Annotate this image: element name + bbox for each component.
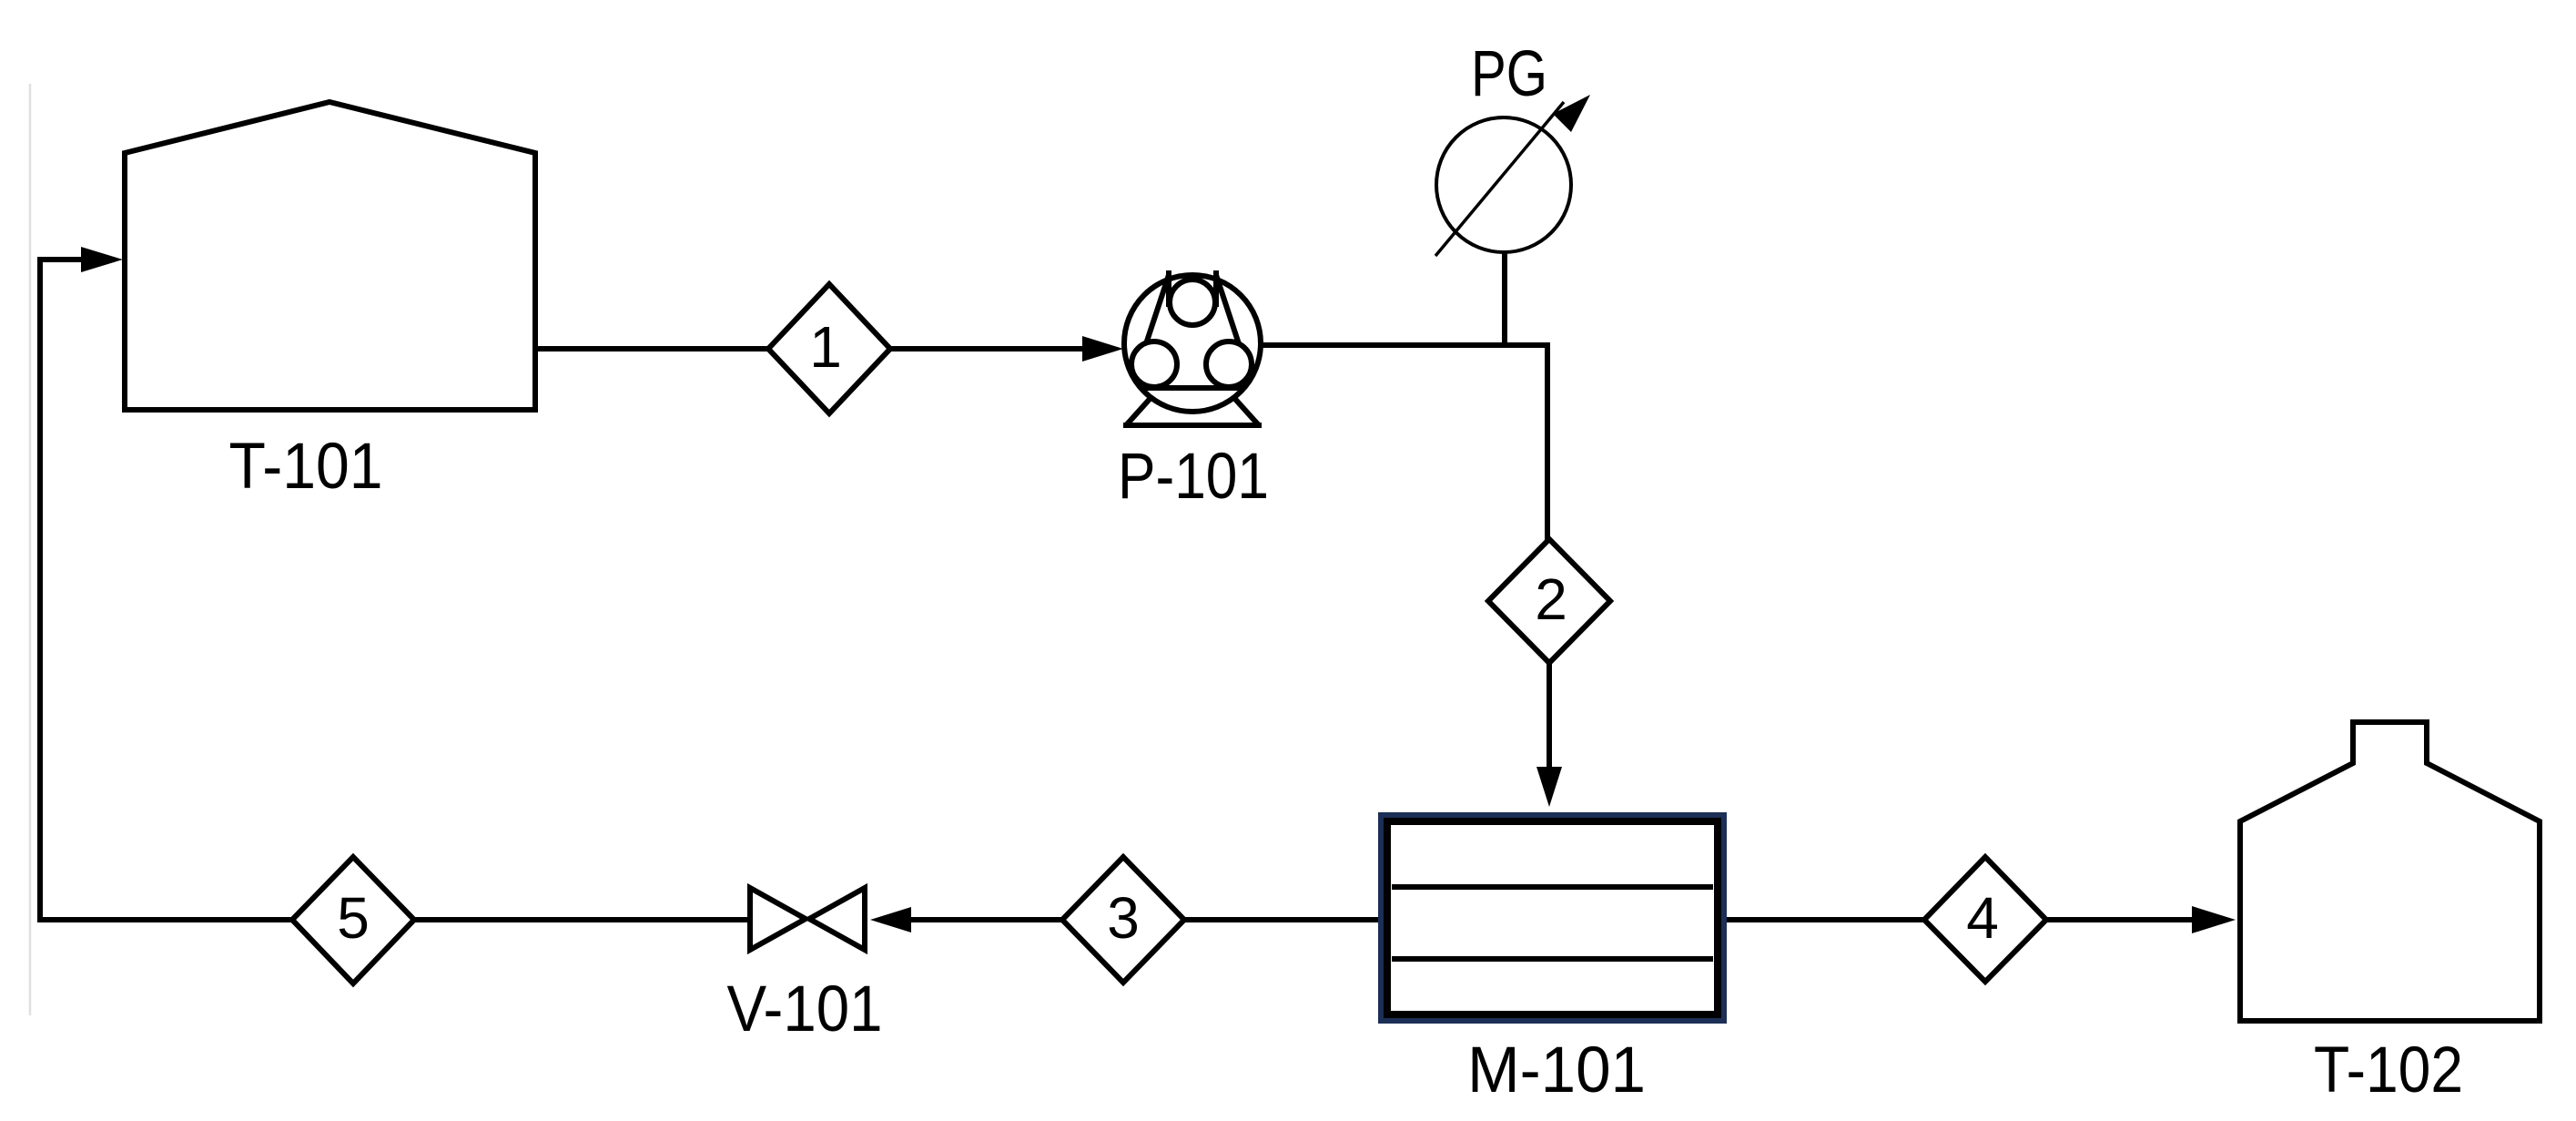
svg-text:3: 3 [1107, 885, 1140, 951]
svg-text:5: 5 [337, 885, 370, 951]
svg-text:V-101: V-101 [727, 973, 883, 1045]
svg-text:PG: PG [1471, 38, 1547, 110]
svg-text:T-101: T-101 [229, 431, 383, 503]
svg-text:1: 1 [809, 314, 842, 380]
svg-text:T-102: T-102 [2314, 1034, 2463, 1106]
svg-text:M-101: M-101 [1467, 1034, 1646, 1106]
svg-text:4: 4 [1966, 885, 1999, 951]
svg-text:2: 2 [1535, 566, 1567, 632]
svg-text:P-101: P-101 [1118, 441, 1269, 513]
